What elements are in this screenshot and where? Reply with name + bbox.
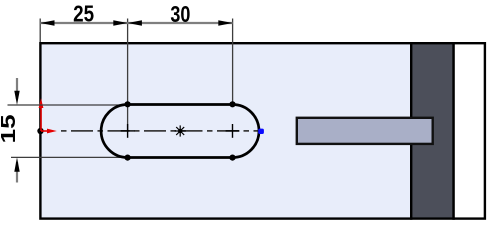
centerline (dash-dot construction line) — [61, 130, 258, 132]
arrowhead dim25 right — [113, 20, 127, 25]
right arc center cross — [226, 124, 240, 138]
origin sketch point — [37, 128, 43, 134]
left arc center cross — [121, 124, 135, 138]
boss bar (gray tab over right side) — [297, 118, 433, 144]
arrowhead dim25 left — [40, 20, 54, 25]
arrowhead dim15 bottom (points up) — [14, 157, 19, 171]
blue endpoint of centerline — [258, 129, 264, 134]
sketch point top-left tangent — [125, 101, 131, 107]
sketch point bottom-right tangent — [229, 155, 235, 161]
svg-text:15: 15 — [0, 114, 20, 143]
dimension line 25/30 — [40, 22, 232, 24]
extension line for dim 30 (right slot center) — [232, 19, 234, 105]
origin Y axis (red arrow up) — [40, 106, 42, 131]
extension line for dim 25 (left, at part edge) — [39, 19, 41, 43]
sketch point top-right tangent — [229, 101, 235, 107]
svg-text:30: 30 — [170, 1, 190, 27]
arrowhead dim15 top (points down) — [14, 91, 19, 105]
slot outline (stadium) — [101, 105, 259, 158]
arrowhead dim30 right — [218, 20, 232, 25]
part end face (white strip) — [454, 43, 485, 218]
arrowhead dim30 left — [128, 20, 142, 25]
slot midpoint star marker — [175, 125, 186, 136]
extension line for dim 15 bottom (slot bottom tangent) — [11, 156, 128, 158]
part face (shaded front face, light blue) — [40, 43, 411, 218]
svg-text:25: 25 — [73, 0, 94, 26]
sketch point bottom-left tangent — [125, 155, 131, 161]
origin X axis (red arrow right) — [41, 130, 51, 132]
dimension line 15 (vertical) — [16, 78, 18, 99]
extension line shared by dims 25/30 (left slot center) — [127, 19, 129, 132]
extension line for dim 15 top (slot top tangent) — [8, 104, 128, 106]
part side face (dark strip) — [411, 43, 453, 218]
